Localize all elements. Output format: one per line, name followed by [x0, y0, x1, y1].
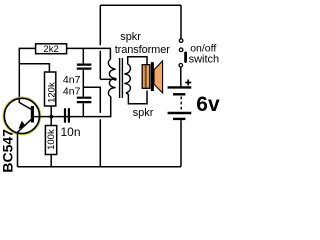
transistor Q1 base bar: [31, 106, 34, 123]
transistor Q1 emitter diagonal: [17, 119, 31, 132]
wire: 100k top lead: [50, 117, 52, 126]
wire: top rail from feedback node to switch: [100, 4, 181, 6]
wire: 2k2 left lead and collector vertical: [19, 48, 35, 103]
wire: switch to battery: [180, 67, 182, 86]
node: base/120k/100k junction dot: [49, 115, 53, 119]
switch S1 lever: [184, 52, 187, 63]
wire: secondary bottom to speaker bottom: [126, 91, 147, 104]
resistor R3 100k: [45, 126, 56, 155]
capacitor C1 4n7 (top): [77, 65, 92, 69]
svg-text:10n: 10n: [61, 125, 81, 139]
resistor R1 2k2: [36, 44, 67, 54]
wire: emitter lead to 0V rail: [17, 133, 19, 167]
transistor Q1 BC547: halo: [3, 97, 40, 134]
wire: base wire from bar to primary bottom lead: [34, 96, 111, 116]
wire: centre-tap horizontal: [100, 78, 115, 80]
svg-text:transformer: transformer: [115, 44, 171, 56]
svg-text:switch: switch: [189, 53, 220, 65]
transformer core: [120, 58, 123, 98]
resistor R2 120k: [45, 72, 56, 106]
svg-text:6v: 6v: [196, 93, 220, 116]
transistor Q1 circle: [4, 98, 39, 133]
wire: secondary top to speaker: [128, 57, 147, 65]
battery dashed link: [180, 97, 182, 111]
node: centre tap junction: [114, 78, 117, 81]
wire: 100k bottom lead: [50, 155, 52, 167]
capacitor C2 4n7 (bottom): [77, 98, 92, 102]
svg-text:2k2: 2k2: [43, 44, 58, 55]
battery BT1 cell 2: [168, 112, 192, 114]
switch S1 contact circles: [179, 39, 183, 43]
wire: 0V bottom rail: [18, 166, 182, 168]
svg-text:120k: 120k: [46, 82, 57, 103]
wire: C2 bottom stem to base wire: [82, 103, 84, 116]
speaker LS1: magnet: [142, 65, 150, 89]
svg-text:spkr: spkr: [133, 107, 154, 119]
transformer T1 secondary winding: [124, 64, 130, 93]
svg-text:4n7: 4n7: [63, 74, 81, 86]
capacitor C3 10n: [65, 108, 69, 122]
switch S1: wire from rail to first contact: [180, 5, 182, 38]
wire: branch to 120k top: [19, 64, 49, 72]
wire: between C1 and C2: [82, 70, 84, 97]
wire: 120k bottom lead: [50, 106, 52, 117]
speaker LS1: frame bar: [151, 62, 154, 91]
svg-text:spkr: spkr: [120, 31, 141, 43]
svg-text:BC547: BC547: [0, 129, 16, 173]
svg-text:4n7: 4n7: [63, 86, 81, 98]
battery BT1 cell 1: [168, 86, 192, 88]
wire: vertical from top rail down (crosses 2k2 wire with gap) to transformer centre tap: [99, 5, 101, 79]
svg-text:100k: 100k: [46, 129, 57, 150]
wire: 4n7 pair top lead: [82, 48, 84, 63]
wire: 2k2 right lead to transformer primary top: [67, 48, 111, 59]
transistor Q1 emitter arrow: [19, 121, 26, 129]
battery BT1 plus sign: [185, 80, 191, 86]
transistor Q1 collector diagonal: [19, 103, 31, 110]
transformer T1 primary winding: [108, 60, 115, 97]
wire: battery to 0V rail: [180, 120, 182, 167]
wire: cap midpoint to 0V rail (crosses base wire with gap): [83, 87, 100, 167]
speaker LS1: cone: [154, 61, 163, 93]
